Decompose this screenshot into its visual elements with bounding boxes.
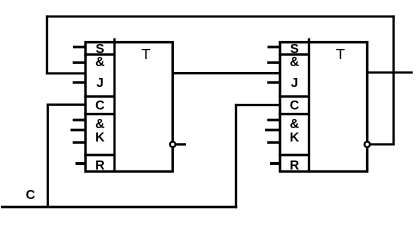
svg-text:K: K (95, 130, 105, 145)
DD2 pin S input stub (268, 46, 281, 49)
svg-text:&: & (290, 54, 299, 69)
svg-text:C: C (26, 187, 36, 202)
DD2 pin K2 input stub (265, 129, 280, 132)
DD1 pin K1 (&) input stub (73, 119, 86, 122)
wire: clock riser for DD2 (235, 104, 237, 208)
DD2 pin R input stub (270, 162, 280, 165)
DD1 pin J3 input stub (73, 81, 86, 84)
wire: DD2 Q output stub to right edge (367, 71, 413, 73)
wire: clock branch to DD1 C input (47, 104, 86, 106)
svg-text:T: T (336, 46, 345, 63)
DD2 S-box bottom divider (279, 53, 309, 55)
svg-text:J: J (291, 75, 298, 90)
DD2 divider between pin column and main field (with top tick) (308, 38, 310, 171)
DD2 C-box top divider (279, 95, 309, 97)
DD1 pin R input stub (76, 162, 86, 165)
DD2 pin J3 input stub (267, 81, 280, 84)
DD1 inverted output bubble (170, 142, 175, 147)
DD1 inverted output stub wire (176, 143, 186, 145)
DD2 pin K1 (&) input stub (267, 119, 280, 122)
wire: DD1 Q output to DD2 J2 input (173, 72, 280, 74)
svg-text:T: T (141, 46, 150, 63)
svg-text:C: C (290, 97, 300, 112)
DD2 K-box bottom divider (279, 154, 309, 156)
wire: feedback into DD1 J2 input (46, 72, 86, 74)
flip-flop DD2 body (280, 42, 367, 171)
svg-text:&: & (95, 54, 104, 69)
wire: clock bus along bottom (1, 206, 237, 209)
DD1 C-box top divider (84, 95, 114, 97)
DD2 pin J1 (&) input stub (267, 61, 280, 64)
DD1 C-box bottom divider (84, 113, 114, 115)
wire: clock riser for DD1 (47, 104, 49, 207)
DD1 divider between pin column and main field (with top tick) (113, 38, 115, 171)
DD1 S-box bottom divider (84, 53, 114, 55)
DD1 pin K2 input stub (71, 129, 86, 132)
svg-text:C: C (95, 97, 105, 112)
DD1 pin J1 (&) input stub (73, 61, 86, 64)
svg-text:R: R (95, 158, 105, 173)
DD1 pin K3 input stub (73, 141, 86, 144)
DD1 K-box bottom divider (84, 154, 114, 156)
DD2 pin K3 input stub (267, 141, 280, 144)
wire: clock branch to DD2 C input (235, 104, 280, 106)
wire: feedback riser on right (392, 15, 394, 144)
wire: feedback top run (46, 15, 395, 17)
svg-text:K: K (290, 130, 300, 145)
wire: feedback from DD2 inverted output (horizontal to riser) (370, 143, 395, 145)
DD1 pin S input stub (73, 46, 86, 49)
svg-text:J: J (96, 75, 103, 90)
svg-text:R: R (290, 158, 300, 173)
DD2 C-box bottom divider (279, 113, 309, 115)
flip-flop DD1 body (86, 42, 173, 171)
DD2 inverted output bubble (365, 142, 370, 147)
wire: feedback left drop to DD1 J2 (46, 15, 48, 74)
